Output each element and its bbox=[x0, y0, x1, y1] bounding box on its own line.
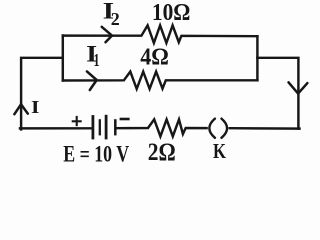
svg-text:K: K bbox=[213, 139, 226, 163]
svg-text:4Ω: 4Ω bbox=[140, 45, 169, 71]
svg-text:2Ω: 2Ω bbox=[148, 139, 176, 166]
svg-text:2: 2 bbox=[111, 9, 120, 29]
svg-text:1: 1 bbox=[94, 50, 100, 70]
svg-text:I: I bbox=[31, 97, 40, 117]
svg-text:10Ω: 10Ω bbox=[152, 0, 191, 26]
svg-text:E = 10 V: E = 10 V bbox=[63, 141, 129, 166]
